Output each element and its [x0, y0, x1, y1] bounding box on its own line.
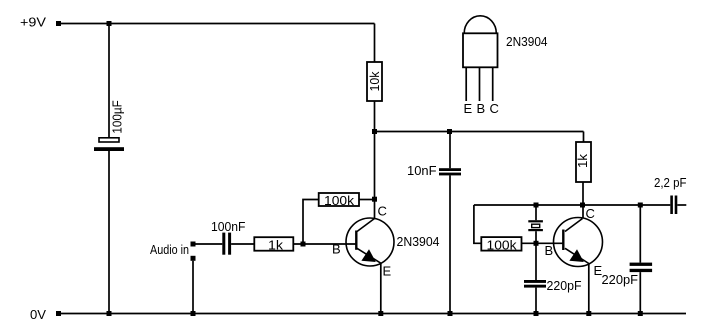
node junction output tap — [638, 203, 643, 208]
wire stage2 top rail — [474, 204, 670, 206]
svg-text:B: B — [545, 243, 554, 258]
svg-text:2,2 pF: 2,2 pF — [654, 175, 687, 190]
svg-text:2N3904: 2N3904 — [397, 234, 440, 249]
package TO-92 outline — [463, 16, 498, 67]
svg-text:10nF: 10nF — [407, 163, 437, 178]
wire +9V top rail — [59, 23, 375, 25]
svg-text:B: B — [477, 101, 486, 116]
wire package lead C — [492, 67, 494, 101]
svg-text:2N3904: 2N3904 — [506, 34, 548, 49]
wire R4 bottom lead / Q2 collector line — [582, 182, 584, 219]
capacitor C2 100nF — [222, 233, 231, 255]
wire Q1 emitter lead — [380, 263, 382, 313]
transistor Q1 2N3904 — [346, 218, 394, 266]
node junction base / feedback — [301, 242, 306, 247]
wire R4 top lead — [583, 132, 585, 143]
node junction stage2 trimmer tap — [534, 203, 539, 208]
wire trimmer bottom lead to 220pF — [535, 231, 537, 280]
transistor Q2 2N3904 — [554, 218, 603, 267]
wire 10nF bottom lead — [449, 175, 451, 313]
node Audio in terminal upper — [191, 242, 196, 247]
resistor R4 1k — [576, 142, 591, 182]
svg-text:220pF: 220pF — [602, 272, 639, 287]
svg-text:100nF: 100nF — [211, 219, 246, 234]
capacitor C4 trimmer — [528, 220, 543, 231]
svg-text:0V: 0V — [30, 307, 46, 322]
svg-text:B: B — [332, 242, 341, 257]
svg-text:100k: 100k — [324, 193, 355, 208]
wire C1 bottom lead — [108, 151, 110, 314]
svg-text:100µF: 100µF — [110, 100, 125, 133]
resistor R1 10k — [367, 62, 382, 101]
node +9V terminal — [56, 21, 61, 26]
capacitor C5 220pF — [524, 280, 546, 288]
node junction rail C1 — [107, 311, 112, 316]
wire C1 top lead — [108, 24, 110, 138]
wire feedback riser — [303, 200, 319, 245]
wire C7 top lead — [639, 205, 641, 263]
wire R1 bottom lead / Q1 collector line — [374, 101, 376, 219]
node junction 10nF tap — [447, 129, 452, 134]
node junction collector / R3 — [372, 197, 377, 202]
svg-text:10k: 10k — [367, 71, 382, 91]
node junction rail C5 — [534, 311, 539, 316]
wire Q2 emitter lead — [588, 264, 590, 314]
wire R5 to Q2 base — [522, 242, 564, 244]
wire trimmer top lead — [535, 205, 537, 220]
svg-text:Audio in: Audio in — [150, 242, 189, 257]
wire mid rail — [375, 131, 584, 133]
wire R3 to collector — [359, 199, 372, 201]
svg-text:+9V: +9V — [20, 15, 46, 30]
wire audio ground lead — [192, 261, 194, 314]
svg-text:C: C — [586, 206, 595, 221]
wire antenna stub — [677, 204, 686, 206]
capacitor C7 220pF — [630, 263, 653, 272]
capacitor 10nF — [439, 168, 461, 175]
node Audio in terminal lower — [191, 256, 196, 261]
svg-text:1k: 1k — [268, 238, 284, 253]
capacitor C6 2.2pF — [670, 196, 677, 215]
node junction Q2 collector — [580, 203, 585, 208]
wire R1 top lead — [374, 24, 376, 63]
node junction rail audio ground — [191, 311, 196, 316]
node junction rail Q1 emitter — [378, 311, 383, 316]
wire C7 bottom lead — [639, 272, 641, 313]
node junction top rail / C1 branch — [107, 21, 112, 26]
node junction mid rail — [372, 129, 377, 134]
resistor R5 100k — [481, 237, 521, 251]
node junction rail 10nF — [448, 311, 453, 316]
node junction rail C7 — [638, 311, 643, 316]
wire audio to C2 — [196, 243, 223, 245]
wire package lead E — [465, 67, 467, 101]
resistor R3 100k — [319, 193, 359, 206]
capacitor C1 100uF — [94, 138, 124, 151]
wire stage2 feedback left — [474, 205, 481, 243]
node junction rail Q2 emitter — [586, 311, 591, 316]
wire C5 bottom lead — [535, 288, 537, 314]
node 0V terminal — [56, 311, 61, 316]
wire 0V bottom rail — [59, 313, 687, 315]
node junction Q2 base — [534, 241, 539, 246]
svg-text:E: E — [464, 101, 473, 116]
resistor R2 1k — [254, 237, 293, 251]
svg-text:C: C — [378, 204, 387, 219]
svg-text:1k: 1k — [575, 153, 590, 168]
wire 10nF top lead — [449, 132, 451, 169]
svg-text:C: C — [490, 101, 499, 116]
wire R2 to Q1 base — [293, 243, 355, 245]
svg-text:E: E — [383, 264, 392, 279]
wire C2 to R2 — [231, 243, 254, 245]
wire package lead B — [479, 67, 481, 101]
svg-text:100k: 100k — [487, 238, 518, 253]
svg-text:220pF: 220pF — [547, 278, 582, 293]
